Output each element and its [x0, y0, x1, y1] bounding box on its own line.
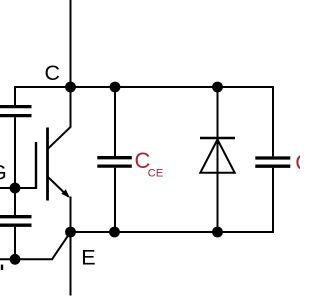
svg-text:CE: CE	[148, 167, 164, 179]
capacitor CGC bottom plate	[0, 114, 32, 117]
IGBT Q1 gate bar	[35, 142, 37, 189]
svg-text:C: C	[295, 150, 300, 175]
node junction dot top of diode	[212, 82, 223, 93]
wire: CCE top lead	[114, 87, 116, 156]
wire: bottom rail	[71, 231, 274, 233]
diode D1 cathode bar	[200, 137, 235, 140]
node G junction dot	[10, 183, 21, 194]
wire: emitter down lead	[70, 232, 72, 296]
svg-text:E: E	[81, 245, 95, 269]
wire: CCE bottom lead	[114, 168, 116, 232]
wire: gate lead	[0, 187, 36, 189]
node junction dot top of CCE	[110, 82, 121, 93]
wire: capacitor CGE to auxiliary node	[14, 227, 16, 258]
node junction dot bottom of diode	[212, 227, 223, 238]
capacitor CGC top plate	[0, 105, 32, 108]
wire: capacitor CGC to gate node	[14, 117, 16, 188]
IGBT Q1 emitter arrowhead	[61, 189, 69, 197]
capacitor right top plate	[255, 156, 290, 159]
IGBT Q1 body bar	[46, 128, 49, 201]
wire: top rail	[15, 86, 273, 88]
node E junction dot	[65, 227, 76, 238]
wire: drop from rail to capacitor CGC	[14, 86, 16, 105]
wire: auxiliary emitter lead	[0, 258, 53, 260]
capacitor CGE top plate	[0, 215, 32, 218]
wire: right branch bottom lead	[272, 168, 274, 233]
capacitor right bottom plate	[255, 165, 290, 168]
wire: diode branch vertical	[217, 87, 219, 232]
wire: diagonal from node E to auxiliary emitter	[52, 232, 71, 259]
diode D1 triangle	[200, 140, 234, 173]
IGBT Q1 collector lead	[48, 86, 71, 149]
capacitor CCE bottom plate	[97, 164, 132, 167]
wire: emitter to node E	[70, 197, 72, 233]
wire: right branch top lead	[272, 86, 274, 156]
IGBT Q1 emitter lead	[48, 177, 69, 197]
label E prime tick (cropped)	[1, 265, 3, 270]
node junction dot bottom of CCE	[109, 227, 120, 238]
svg-text:C: C	[45, 61, 61, 85]
svg-text:G: G	[0, 162, 7, 185]
capacitor CCE top plate	[97, 156, 132, 159]
node C junction dot	[65, 82, 76, 93]
capacitor CGE bottom plate	[0, 224, 32, 227]
wire: top collector feed	[70, 0, 72, 87]
node auxiliary emitter junction dot	[10, 254, 21, 265]
wire: gate node down to capacitor CGE	[14, 189, 16, 215]
